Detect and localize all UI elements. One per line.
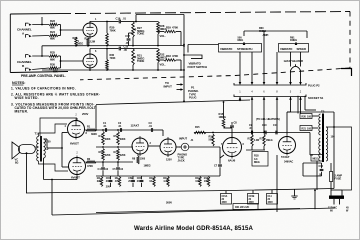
label 117VAC 60cy [328,206,349,213]
resistor R20 [300,114,312,119]
wire V1B plate to C18 [90,48,108,52]
resistor R14 1MEG [260,135,273,147]
label SOCKET S1 [308,96,324,100]
tube V1 12AX7 phase inverter [132,136,152,156]
wire jackB2 to R26 [32,68,49,70]
label VC [15,157,19,164]
wire strength pot to P2 [240,31,264,82]
wire B+ distribution [287,112,335,189]
capacitor C7 [214,155,224,176]
node CHANNEL B label [17,60,32,68]
capacitor C6A 20MF [106,176,113,189]
resistor R23 68K [49,19,58,30]
capacitor C17 .05 [125,33,130,46]
wire screen bus [47,133,69,168]
resistor R7 220K [114,149,126,161]
svg-text:TONE: TONE [137,32,144,36]
svg-text:250V: 250V [82,112,88,116]
svg-text:6AU6: 6AU6 [228,159,236,163]
svg-text:220K: 220K [120,154,126,157]
label V4 6V6GT [71,176,80,180]
resistor R21A box [311,155,323,162]
svg-text:VOL.: VOL. [160,63,166,67]
label T1 1750 [45,140,51,152]
transformer T1 label [35,132,39,136]
resistor R26 68K [49,62,58,73]
svg-text:349VAC: 349VAC [284,160,293,164]
resistor R24 68K [49,30,58,41]
connector socket S1 arrows [234,95,306,100]
wire dashed pre-amp panel border top [10,12,350,15]
potentiometer R34 500K vibrato strength [238,36,246,46]
heater 12AX7 filament [291,64,301,78]
label 1MEG [144,164,151,168]
resistor R10 1K [149,177,155,187]
svg-text:R21: R21 [302,128,307,131]
svg-text:SPEED: SPEED [297,47,307,51]
wire V3 grid row [85,129,134,131]
capacitor C15A 20 450V [221,191,232,204]
resistor R16 1MEG [219,112,226,128]
svg-text:TONE: TONE [137,59,144,63]
resistor R36 700K plate B [106,49,116,71]
resistor R6 220K [99,149,111,161]
svg-text:2.2M: 2.2M [90,40,96,44]
svg-text:R21 2W 2.2K: R21 2W 2.2K [235,206,249,209]
svg-text:R25: R25 [50,50,55,54]
wire J1 to V2 grid [176,147,220,158]
connector P1 arrows to bus [177,83,184,91]
wire R25/R26 junction [58,56,83,68]
speaker voice coil [18,145,35,155]
resistor R21 [300,126,312,131]
svg-text:VOL.: VOL. [160,34,166,38]
wire rectifier top [286,112,288,135]
capacitor C16 [107,17,133,24]
wire left drop [95,105,97,131]
capacitor C6B 20MF [128,176,135,187]
svg-text:390K: 390K [105,138,111,141]
svg-text:R23: R23 [50,19,55,23]
wire bottom feed row [96,175,220,177]
svg-text:SOCKET S1: SOCKET S1 [308,96,324,100]
capacitor C10 .01 [262,123,267,134]
svg-text:FUSE: FUSE [335,177,342,181]
label R60 5MEG [259,26,269,37]
label TO INPUT [164,81,173,89]
svg-text:700K: 700K [110,56,116,60]
svg-text:R24: R24 [50,30,55,34]
svg-text:MEG: MEG [78,42,84,46]
transformer T2 primary bottom [319,138,321,161]
wire mixer bus vertical [183,15,185,102]
wire osc right [277,133,313,213]
svg-text:450V: 450V [268,201,274,204]
jack channel A input 2 [26,35,32,38]
wire T1 primary top to V3 plate [39,124,68,137]
label NOTES heading [12,81,25,85]
svg-text:C10: C10 [262,123,267,127]
capacitor C14 10 450V [267,190,278,204]
capacitor C6C 20MF [137,176,144,187]
svg-text:R33: R33 [166,54,171,58]
svg-text:6V6GT: 6V6GT [71,176,80,180]
svg-text:125V: 125V [166,158,172,162]
wire osc bus [194,132,310,134]
wire R21A down [303,161,317,209]
svg-text:470K: 470K [87,164,93,168]
svg-text:2.2M: 2.2M [254,139,259,142]
switch vibrato foot switch [183,44,202,59]
label phono type jack [178,153,188,163]
tube V4 6V6GT [69,152,86,177]
resistor R12 50K [209,132,215,146]
wire C17 tap [129,32,134,34]
wire R23/R24 junction [58,25,83,36]
svg-text:5Y3GT: 5Y3GT [281,155,290,159]
resistor R17 [204,177,210,187]
svg-text:PLUG: PLUG [189,96,196,100]
wire osc lower [246,146,265,150]
potentiometer R32 5MEG VOL [133,49,167,71]
svg-text:T1: T1 [35,132,39,136]
resistor R9 [115,177,121,187]
svg-text:C18: C18 [124,45,129,49]
wire heater resistors [298,96,318,128]
resistor R29 470K [158,26,181,46]
label V3 6V6GT [70,142,79,146]
potentiometer R28 5MEG VOL [157,22,167,46]
svg-text:1MEG: 1MEG [219,115,226,119]
label note 3 [11,103,96,114]
tube V5 6AU6 vibrato oscillator [221,136,245,159]
label note 2 [11,93,100,101]
wire V1 to V2 [148,145,160,147]
label PLUG P2 [308,84,320,88]
resistor R13 2.2M [248,135,260,147]
wire dashed pre-amp panel border right [349,12,351,69]
wire speed pot to P2 [277,52,301,82]
svg-text:FOOT SWITCH: FOOT SWITCH [188,65,208,69]
resistor R25A 1MEG grid [73,36,84,46]
label to all heaters [256,117,280,121]
resistor R26A 2.2MEG grid [85,37,96,47]
wire T1 secondary [44,139,48,180]
transformer T2 core [322,114,324,163]
label 260V [166,201,172,205]
svg-text:T2: T2 [321,110,325,114]
capacitor C15B 10 450V [248,190,259,204]
svg-text:700K: 700K [110,29,116,33]
capacitor C10 line .05 [303,163,324,177]
label 5Y3GT [281,155,293,164]
jack channel B input 2 [26,68,32,71]
resistor R19 10K [195,177,201,187]
capacitor C2 .01 [118,121,122,132]
capacitor C5 .02 [113,162,124,176]
tube V2 12AX7 preamp triode [160,137,176,157]
jack J1 INPUT [179,137,194,151]
resistor R8 1500 [132,154,146,164]
svg-text:1750: 1750 [45,140,51,144]
wire strength box left [188,45,219,53]
tube V1B 12AX7 channel B triode [83,50,97,70]
svg-text:MEG: MEG [254,160,260,164]
wire jackB1 to R25 [32,46,49,57]
label note 1 [11,87,76,91]
svg-text:PRE-AMP. CONTROL PANEL.: PRE-AMP. CONTROL PANEL. [21,74,66,78]
svg-text:MEG: MEG [238,38,244,42]
svg-text:100: 100 [307,116,312,119]
resistor R2 470K [86,157,96,168]
svg-text:JACK: JACK [178,159,185,163]
svg-text:R26: R26 [50,62,55,66]
node pin numbers P2/S1 [239,90,302,94]
potentiometer R61 1MEG vibrato speed [290,36,297,46]
svg-text:METER.: METER. [15,110,29,114]
transformer T1 secondary [44,139,46,158]
svg-text:.05: .05 [125,41,129,45]
connector plug P2 arrows [234,82,306,85]
svg-text:STRENGTH: STRENGTH [237,47,252,51]
tube V3 6V6GT [65,114,88,140]
resistor R25 68K [49,50,58,61]
label 125V [166,158,172,162]
connector AC line plug [329,190,344,205]
svg-text:(TO ALL HEATERS): (TO ALL HEATERS) [256,117,280,121]
wire amp box top left [40,118,77,136]
svg-text:100: 100 [331,135,336,139]
svg-text:R15: R15 [195,125,200,129]
label pre-amp control panel [21,74,66,78]
tube V1A 12AX7 channel A triode [83,18,97,39]
svg-text:1500: 1500 [140,158,146,161]
label 6AU6 [228,159,236,163]
transformer T1 primary [37,137,39,162]
transformer T1 core [40,136,42,162]
wire output hook [341,69,352,77]
wire mid row [96,146,133,148]
svg-text:PLUG P2: PLUG P2 [308,84,320,88]
node 250V plate [82,112,88,116]
wire grid bus B [42,69,184,71]
svg-text:100: 100 [307,128,312,131]
connector P1 phono plug [188,86,199,100]
transformer T2 label [321,110,325,114]
svg-text:INPUT: INPUT [179,137,187,141]
label 2 AMP FUSE [335,174,343,181]
svg-text:R20: R20 [302,116,307,119]
svg-text:20V: 20V [106,186,111,189]
resistor R18 3.3MEG box [252,152,268,167]
tube V6 5Y3GT rectifier [279,135,296,156]
svg-text:C15B: C15B [249,196,255,198]
wire B+ bus [26,189,334,194]
svg-text:220K: 220K [105,154,111,157]
label 12AX7 [131,124,140,128]
svg-text:8Ω: 8Ω [15,161,18,164]
jack channel B input 1 [26,55,32,58]
svg-text:470K: 470K [172,26,178,30]
svg-text:6V6GT: 6V6GT [70,142,79,146]
svg-text:MEG: MEG [313,157,319,160]
svg-text:C15A: C15A [222,195,228,198]
resistor R5 390K [114,129,126,145]
svg-text:VIBRATO: VIBRATO [220,47,233,51]
svg-text:1. VALUES OF CAPACITORS IN MF: 1. VALUES OF CAPACITORS IN MFD. [11,87,76,91]
potentiometer R31 5MEG TONE [132,49,145,71]
capacitor C8 [224,121,238,138]
svg-text:1K: 1K [149,180,152,183]
svg-text:CHANNEL: CHANNEL [17,28,32,32]
svg-text:450V: 450V [222,201,228,204]
potentiometer R27 5MEG TONE [132,22,145,46]
wire ground bus lower [52,208,335,215]
svg-text:260V: 260V [166,201,172,205]
wire strength top [244,31,307,38]
speaker cone [12,142,19,159]
svg-text:68K: 68K [50,57,55,61]
label VIBRATO STRENGTH [219,44,262,53]
wire V4 cathode down [44,176,78,215]
wire grid bus A [42,45,184,47]
wire power box [326,127,352,190]
svg-text:390K: 390K [120,138,126,141]
wire R27 to R28 top [133,21,158,23]
transformer T2 secondary [326,127,328,161]
wire T1 primary bottom to V4 plate [39,161,69,171]
wire dashed pre-amp panel border bottom [80,68,350,80]
resistor R22 2.2K 2W box [233,204,258,210]
wire riser to mixer [136,15,184,22]
capacitor C18 .05 [107,45,133,52]
resistor R15 470K [194,125,206,134]
capacitor C3 .01 [133,121,163,136]
svg-text:68K: 68K [50,37,55,41]
svg-text:C17: C17 [125,34,130,38]
svg-text:470K: 470K [172,54,178,58]
label 12AX7 HEATER [284,59,304,63]
ground chassis power [291,189,297,199]
capacitor C11 .01 [273,123,278,134]
wire R16 top [96,99,250,112]
svg-text:R29: R29 [166,26,171,30]
wire speaker to T1 [27,147,39,193]
wire V4 grid row [86,161,134,163]
wire jackA2 to R24 [32,35,49,38]
svg-text:12AX7: 12AX7 [131,124,140,128]
resistor R33 470K [158,54,181,70]
svg-text:390K: 390K [91,132,97,136]
resistor R4 390K [99,129,111,145]
svg-text:CHANNEL: CHANNEL [17,60,32,64]
jack channel A input 1 [26,23,32,26]
wire V1A plate to R30/C16 [90,22,107,24]
label title Wards Airline Model [134,225,253,232]
svg-text:Wards Airline Model GDR-8514A,: Wards Airline Model GDR-8514A, 8515A [134,225,253,232]
label vibrato foot switch [188,62,208,70]
wire S1 drops [240,97,301,133]
resistor R1 390K [86,125,97,137]
svg-text:INPUT: INPUT [164,85,173,89]
wire dashed pre-amp panel border left [9,14,11,73]
wire ground bus upper [96,209,300,213]
svg-text:WISE NOTED.: WISE NOTED. [15,96,39,100]
fuse F1 [330,163,333,190]
capacitor C4 .02 [98,162,109,176]
svg-text:1MEG: 1MEG [144,164,151,168]
svg-text:NOTES:: NOTES: [12,81,25,85]
node CHANNEL A label [17,28,32,36]
resistor R11 4.7K [163,177,169,187]
svg-text:AMP.: AMP. [263,33,269,37]
wire jackA1 to R23 [32,17,49,25]
label 100 [331,135,336,139]
svg-text:VIBRATO: VIBRATO [280,47,293,51]
transformer T2 primary top [319,114,321,135]
capacitor C9 .01 [249,123,253,134]
svg-text:1MEG: 1MEG [290,38,297,42]
capacitor C1 .01 [103,121,107,132]
resistor R3 [97,177,103,187]
resistor R30 700K plate [106,21,116,46]
label VIBRATO SPEED [279,44,309,53]
svg-text:1MEG: 1MEG [266,139,273,142]
wire dashed pre-amp panel border bottom left [10,72,68,73]
